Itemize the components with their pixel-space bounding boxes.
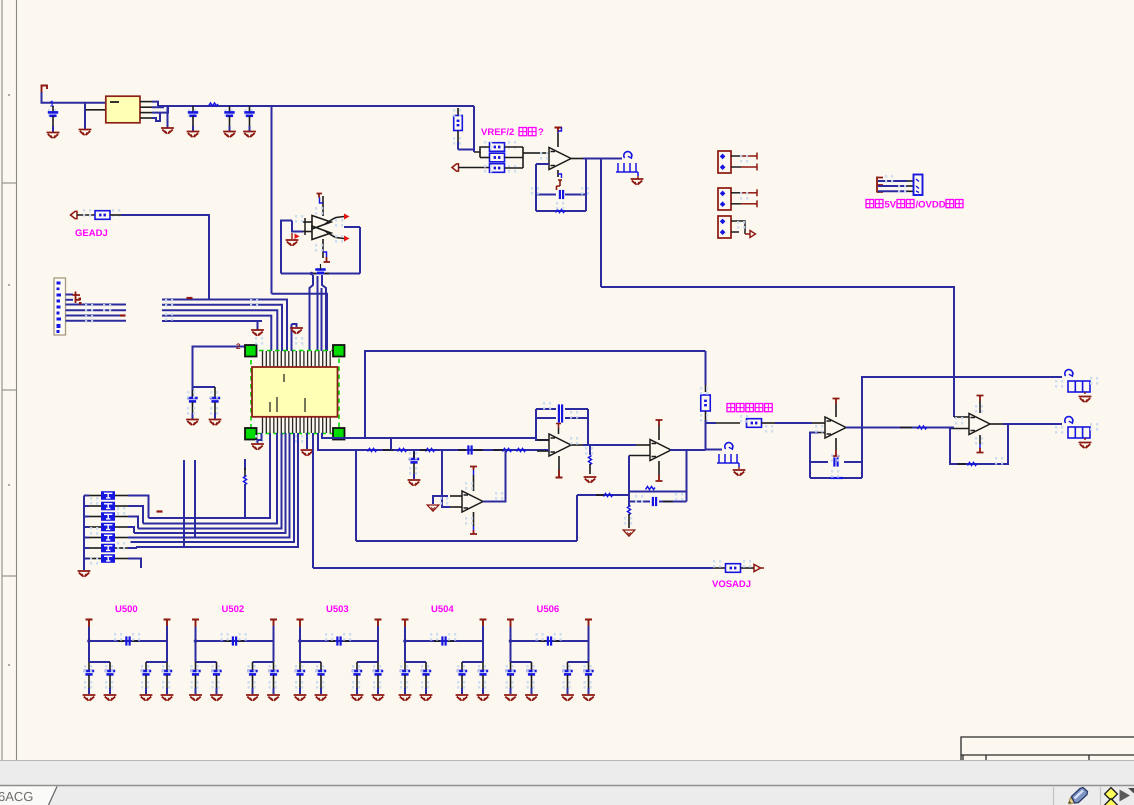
U7 feedback left vertical bbox=[810, 433, 818, 479]
selection dashed box around U3 bbox=[251, 351, 339, 434]
transistor loop bottom bbox=[281, 273, 360, 275]
U502 capacitor 3 bbox=[252, 662, 254, 670]
wire U2 output to no-erc bbox=[601, 158, 622, 160]
big loop bottom wire bbox=[356, 540, 577, 542]
U506 left vertical wire bbox=[510, 627, 512, 662]
pin from port to resistor row 3 bbox=[459, 167, 490, 169]
U500 capacitor 2 bbox=[109, 662, 111, 670]
net label on bus bbox=[209, 103, 219, 106]
U2 output wire bbox=[571, 158, 583, 160]
vertical y351 riser bbox=[365, 351, 706, 438]
U4 power stem down bbox=[473, 512, 475, 526]
U7 power stem down bbox=[835, 438, 837, 450]
capacitor C8 bbox=[214, 387, 216, 397]
U504 capacitor 2 bbox=[425, 662, 427, 670]
ground under J7 bbox=[738, 467, 740, 469]
shunt capacitor C10 bbox=[413, 450, 415, 458]
wire long vertical corner to bundle bbox=[272, 294, 328, 351]
U502 capacitor 2 bbox=[216, 662, 218, 670]
ground at J8 bbox=[1084, 392, 1086, 394]
pack resistor RN7 bbox=[84, 558, 89, 560]
ground under C8 bbox=[209, 420, 222, 426]
svg-text:U500: U500 bbox=[115, 604, 138, 615]
U506 link wire bbox=[511, 640, 589, 642]
connector comb J2 bbox=[616, 163, 638, 176]
big loop right riser bbox=[576, 495, 578, 541]
U5 feedback upper box bbox=[536, 408, 556, 410]
long feed wire corner down bbox=[601, 287, 954, 417]
U504 capacitor 3 bbox=[461, 662, 463, 670]
capacitor C2 bbox=[188, 109, 196, 117]
U502 left vertical wire bbox=[195, 627, 197, 662]
ground stub below bus bbox=[167, 106, 169, 128]
VOSADJ right pin bbox=[741, 567, 755, 569]
U500 capacitor 1 bbox=[88, 662, 90, 670]
U504 capacitor 4 bbox=[482, 662, 484, 670]
U502 ground 4 bbox=[267, 695, 280, 701]
U503 ground 2 bbox=[315, 695, 328, 701]
power port P1 top-left bbox=[42, 86, 48, 93]
node vertical to output junction bbox=[705, 420, 707, 450]
U503 capacitor 2 bbox=[320, 662, 322, 670]
U502 link wire bbox=[196, 640, 274, 642]
GEADJ pin left bbox=[77, 214, 95, 216]
U3 body bbox=[252, 367, 338, 417]
no-erc marker upper output bbox=[1065, 370, 1073, 376]
current output resistor wire bbox=[706, 422, 717, 424]
no-erc marker at U6 output bbox=[706, 449, 723, 451]
U500 left power pin bbox=[86, 620, 93, 628]
selection handle bottom-right bbox=[333, 428, 345, 440]
pack resistor RN5 bbox=[84, 537, 89, 539]
U500 ground 1 bbox=[83, 695, 96, 701]
U2 feedback bottom line bbox=[536, 210, 586, 212]
U506 left power pin bbox=[507, 620, 514, 628]
svg-text:U504: U504 bbox=[431, 604, 454, 615]
ground G inside transistor circuit bbox=[291, 233, 293, 239]
U503 series capacitor bbox=[329, 640, 335, 642]
ground under C3 bbox=[223, 132, 236, 138]
U500 ground 2 bbox=[104, 695, 117, 701]
bus line B4 bbox=[162, 316, 271, 351]
pencil icon bbox=[1069, 788, 1088, 805]
U500 right cap pair wire bbox=[146, 661, 167, 663]
corner arrow icon bbox=[1128, 788, 1134, 794]
wire 438 line up to U5 non-inv bbox=[536, 438, 549, 440]
svg-text:5V: 5V bbox=[885, 200, 897, 211]
U1 right pin hooks to bus bbox=[152, 102, 158, 106]
status bar background bbox=[0, 760, 1134, 805]
svg-text:U502: U502 bbox=[222, 604, 245, 615]
U506 ground 1 bbox=[504, 695, 517, 701]
wire to U1 left pins bbox=[57, 102, 85, 104]
U503 ground 3 bbox=[351, 695, 364, 701]
U5 power mark above bbox=[556, 424, 561, 429]
short vertical wire with net label bbox=[244, 459, 246, 470]
resistor pack left rail bbox=[83, 496, 85, 571]
ground under C1 bbox=[47, 133, 60, 139]
U7 feedback right vertical bbox=[861, 428, 863, 479]
U504 left power pin bbox=[402, 620, 409, 628]
U503 link wire bbox=[300, 640, 378, 642]
U503 right power pin bbox=[375, 620, 382, 627]
U503 left power pin bbox=[297, 620, 304, 628]
capacitor C1 bbox=[48, 109, 56, 117]
U5 output bbox=[571, 444, 583, 446]
wire from P1 bbox=[42, 92, 58, 103]
net labels right of C9 bbox=[503, 449, 513, 452]
status bar divider line bbox=[0, 785, 1134, 787]
U2 power stem up bbox=[557, 133, 559, 147]
U2 feedback cap line bbox=[536, 194, 556, 196]
U503 left cap pair wire bbox=[300, 661, 321, 663]
wire stub and grounds above IC bbox=[292, 324, 297, 327]
transistor loop left vertical bbox=[281, 221, 292, 249]
capacitor C7 bbox=[192, 390, 194, 397]
ground G3 bbox=[161, 128, 174, 134]
U2 feedback right vertical bbox=[585, 159, 587, 212]
pack resistor RN2 bbox=[84, 505, 89, 507]
U502 capacitor 1 bbox=[195, 662, 197, 670]
pack resistor RN6 bbox=[84, 547, 89, 549]
transistor Q1 pair crossed triangles bbox=[312, 216, 331, 230]
U6 feedback right vertical bbox=[686, 450, 688, 502]
U502 right cap pair wire bbox=[253, 661, 274, 663]
U506 ground 3 bbox=[561, 695, 574, 701]
pack minus label bbox=[157, 510, 163, 512]
bus line B2 bbox=[162, 305, 282, 351]
U4 power stem up bbox=[473, 475, 475, 491]
U500 left cap pair wire bbox=[89, 661, 110, 663]
bus line B1 bbox=[162, 300, 287, 352]
U6 feedback left vertical bbox=[628, 456, 630, 502]
U8 non-inv pin bbox=[954, 416, 969, 418]
sheet border left frame bbox=[2, 0, 17, 760]
U8 inv input from feedback bbox=[950, 428, 969, 430]
connector J3 bbox=[718, 151, 731, 173]
U4 output loop back to bus bbox=[483, 450, 506, 502]
svg-text:U503: U503 bbox=[326, 604, 349, 615]
label high current output bbox=[727, 404, 772, 412]
U4 non-inverting ground hook bbox=[433, 496, 448, 504]
connector J5 bbox=[718, 216, 731, 238]
U5 bottom power stem bbox=[558, 456, 560, 470]
U6 output wire bbox=[670, 449, 706, 451]
ground stub below IC mid bbox=[306, 433, 308, 449]
ground under pack rail bbox=[78, 571, 91, 577]
connector comb J7 bbox=[717, 454, 739, 467]
node joining bus drop to resistor ladder bbox=[473, 150, 475, 153]
U504 ground 4 bbox=[477, 695, 490, 701]
U3 top pins bbox=[263, 351, 331, 367]
resistor R6 GEADJ bbox=[95, 211, 110, 220]
U504 ground 2 bbox=[420, 695, 433, 701]
capacitor C4 bbox=[245, 109, 253, 117]
U506 right cap pair wire bbox=[568, 661, 589, 663]
pack resistor RN4 bbox=[84, 526, 89, 528]
ground under C2 bbox=[187, 132, 200, 138]
power bracket J6 left bbox=[877, 177, 883, 193]
port VOSADJ arrow bbox=[754, 564, 761, 571]
svg-text:U506: U506 bbox=[537, 604, 560, 615]
wire into U3 pin 1 from left bbox=[196, 346, 250, 348]
U1 right pins bbox=[140, 101, 152, 103]
pack resistor RN3 bbox=[84, 516, 89, 518]
op-amp U4 bbox=[462, 491, 483, 512]
svg-text:6ACG: 6ACG bbox=[0, 789, 33, 804]
diamond icon 2 partial bbox=[1105, 799, 1118, 805]
VOSADJ vertical from IC pin bbox=[312, 433, 314, 568]
svg-text:2: 2 bbox=[236, 342, 241, 351]
Q1 emitter stem down bbox=[322, 239, 324, 258]
U504 left cap pair wire bbox=[405, 661, 426, 663]
U504 capacitor 1 bbox=[404, 662, 406, 670]
series capacitor C9 on bus bbox=[458, 449, 466, 451]
U502 ground 2 bbox=[210, 695, 223, 701]
J6 pin stubs bbox=[907, 180, 914, 182]
resistor R4 bbox=[490, 153, 505, 162]
regulator U1 left pin hooks bbox=[85, 103, 106, 110]
sheet part body left bbox=[54, 278, 66, 335]
port arrow at J5 bbox=[745, 233, 750, 235]
U506 series capacitor bbox=[540, 640, 546, 642]
bus wire with net labels bbox=[356, 449, 548, 451]
status separator 1 bbox=[1053, 787, 1055, 805]
title block corner lines bbox=[961, 737, 1134, 760]
U502 right vertical wire bbox=[273, 626, 275, 662]
IC pin to bus corner bbox=[318, 433, 356, 450]
capacitor C5 in feedback bbox=[559, 190, 561, 199]
regulator U1 body bbox=[106, 96, 140, 123]
U500 series capacitor bbox=[118, 640, 124, 642]
label onboard 5V supply bbox=[866, 200, 883, 208]
U8 power stem down bbox=[979, 435, 981, 444]
vertical link bus to 438 line bbox=[390, 438, 392, 450]
left pins of R3 R4 bbox=[474, 147, 490, 152]
resistor R8 vertical bbox=[705, 385, 707, 392]
U500 capacitor 4 bbox=[166, 662, 168, 670]
maroon tick on pin wire bbox=[120, 314, 126, 316]
svg-text:VOSADJ: VOSADJ bbox=[712, 579, 751, 590]
wire to U6 feedback bbox=[577, 494, 629, 496]
sheet tab 6ACG bbox=[0, 787, 57, 805]
ground under C7 bbox=[186, 420, 199, 426]
U2 feedback left vertical bbox=[535, 164, 537, 211]
bracket joining ladder to op-amp input bbox=[522, 147, 524, 168]
U3 bottom pins bbox=[263, 417, 331, 433]
port GEADJ bbox=[71, 211, 78, 218]
staircase wires from IC bottom pins bbox=[149, 433, 271, 518]
connector J8 upper bbox=[1068, 381, 1090, 392]
status separator 2 bbox=[1100, 787, 1102, 805]
U506 capacitor 1 bbox=[510, 662, 512, 670]
power pin mark above C5 bbox=[557, 180, 563, 190]
U500 link wire bbox=[89, 640, 167, 642]
U503 capacitor 3 bbox=[356, 662, 358, 670]
bus line B5 to ground bbox=[162, 321, 262, 330]
svg-text:?: ? bbox=[538, 127, 544, 138]
U503 capacitor 1 bbox=[299, 662, 301, 670]
U502 left power pin bbox=[192, 620, 199, 628]
resistor R7 VOSADJ bbox=[726, 564, 741, 573]
main +5V bus wire bbox=[158, 105, 475, 107]
U502 ground 1 bbox=[189, 695, 202, 701]
ground under C4 bbox=[243, 132, 256, 138]
port VREF bbox=[452, 164, 459, 171]
U6 feedback lines bbox=[629, 491, 687, 493]
U506 right power pin bbox=[585, 620, 592, 627]
red pin arrows bbox=[295, 214, 350, 242]
U500 ground 4 bbox=[161, 695, 174, 701]
U500 ground 3 bbox=[140, 695, 153, 701]
no-erc marker on VREF node bbox=[624, 152, 632, 158]
power symbol on part pins bbox=[73, 292, 81, 304]
U503 right vertical wire bbox=[377, 626, 379, 662]
resistor R2 vertical on bus drop bbox=[457, 108, 459, 115]
U502 right power pin bbox=[270, 620, 277, 627]
438 line continuing to opamp bbox=[365, 437, 536, 439]
minus label on bus bbox=[187, 297, 193, 299]
Q1 collector curves bbox=[325, 217, 344, 225]
U502 capacitor 4 bbox=[273, 662, 275, 670]
U8 output bbox=[990, 423, 1003, 425]
GEADJ pin right bbox=[110, 214, 121, 216]
branch up to upper output connector bbox=[862, 377, 1062, 428]
U502 series capacitor bbox=[225, 640, 231, 642]
U503 right cap pair wire bbox=[357, 661, 378, 663]
U6 power stem up bbox=[658, 426, 660, 440]
play arrow icon bbox=[1120, 790, 1131, 802]
U500 capacitor 3 bbox=[145, 662, 147, 670]
U8 power stem up bbox=[979, 401, 981, 413]
op-amp U5 bbox=[549, 434, 571, 456]
U503 capacitor 4 bbox=[377, 662, 379, 670]
wire bus to U4 inverting input bbox=[442, 450, 450, 507]
svg-text:/OVDD: /OVDD bbox=[916, 200, 946, 211]
U2 bottom power stem bbox=[557, 170, 559, 177]
long vertical wire from bus down to pin bundle bbox=[271, 106, 273, 294]
power bar above U2 bbox=[555, 128, 563, 133]
big loop left vertical bbox=[355, 450, 357, 541]
U504 right cap pair wire bbox=[462, 661, 483, 663]
part pin wires bbox=[66, 294, 74, 296]
capacitor C6 on loop bottom bbox=[313, 273, 316, 275]
diamond icon 1 bbox=[1105, 788, 1118, 801]
U500 right vertical wire bbox=[166, 626, 168, 662]
wire U1 bracket to ground bbox=[84, 110, 86, 129]
U506 capacitor 2 bbox=[531, 662, 533, 670]
J6 wires bbox=[878, 180, 907, 182]
junction vertical down from U2 output bbox=[600, 159, 602, 288]
U6 power stem down bbox=[658, 461, 660, 475]
bus line B3 bbox=[162, 310, 277, 351]
connector block J6 bbox=[914, 175, 923, 196]
ground at J9 bbox=[1084, 438, 1086, 440]
ground bracket in transistor circuit bbox=[292, 221, 303, 232]
U500 right power pin bbox=[164, 620, 171, 627]
U6 ground branch bbox=[628, 502, 630, 507]
U503 left vertical wire bbox=[299, 627, 301, 662]
wire GEADJ to bundle bbox=[121, 215, 209, 300]
U504 right power pin bbox=[480, 620, 487, 627]
U5 inv input from bus bbox=[548, 450, 549, 451]
op-amp U8 bbox=[969, 414, 990, 435]
op-amp U6 bbox=[650, 440, 671, 461]
U504 link wire bbox=[405, 640, 483, 642]
ground on bus line B5 bbox=[251, 330, 264, 336]
U7 feedback bottom line bbox=[810, 477, 862, 479]
U504 ground 3 bbox=[456, 695, 469, 701]
U7 feedback capacitor line bbox=[810, 461, 828, 463]
U504 series capacitor bbox=[434, 640, 440, 642]
capacitor C3 bbox=[225, 109, 233, 117]
Q1 input pins bbox=[303, 221, 312, 223]
selection handle bottom-left bbox=[245, 428, 257, 440]
U503 ground 4 bbox=[372, 695, 385, 701]
U502 left cap pair wire bbox=[196, 661, 217, 663]
U506 capacitor 4 bbox=[588, 662, 590, 670]
connector J4 bbox=[718, 188, 731, 210]
U506 left cap pair wire bbox=[511, 661, 532, 663]
right pins of resistor ladder bbox=[505, 146, 524, 148]
transistor loop right vertical bbox=[359, 227, 361, 274]
ground under J2 bbox=[631, 179, 644, 185]
U500 left vertical wire bbox=[88, 627, 90, 662]
wire IC pin to 438 line bbox=[322, 433, 365, 438]
op-amp U7 bbox=[825, 417, 846, 438]
resistor R5 bbox=[490, 164, 505, 173]
U502 ground 3 bbox=[246, 695, 259, 701]
vertical taps from resistor pack area bbox=[183, 460, 185, 547]
VOSADJ wire long bbox=[313, 567, 713, 569]
decoupling wire left of IC bbox=[193, 347, 216, 388]
VOSADJ inline pin dashes bbox=[713, 567, 726, 569]
U504 ground 1 bbox=[399, 695, 412, 701]
connector J9 lower bbox=[1068, 427, 1090, 438]
pack resistor RN1 bbox=[84, 495, 89, 497]
ground under U1 bracket bbox=[79, 130, 92, 136]
U503 ground 1 bbox=[294, 695, 307, 701]
svg-text:GEADJ: GEADJ bbox=[75, 228, 108, 239]
U506 ground 4 bbox=[582, 695, 595, 701]
U7 output wire bbox=[846, 427, 862, 429]
signal ground at U4 input bbox=[427, 505, 439, 511]
U6 input pins bbox=[636, 444, 650, 446]
U5 output branch down to ground bbox=[589, 445, 591, 455]
ground under C10 bbox=[408, 480, 421, 486]
pack staircase to bus bbox=[128, 496, 149, 519]
ground hook below IC left bbox=[258, 433, 262, 443]
U506 ground 2 bbox=[525, 695, 538, 701]
op-amp U2 bbox=[549, 148, 571, 170]
resistor R3 bbox=[490, 143, 505, 152]
U506 right vertical wire bbox=[588, 626, 590, 662]
wire riser to current node bbox=[705, 351, 707, 385]
U7 power stem up bbox=[835, 404, 837, 417]
U504 left vertical wire bbox=[404, 627, 406, 662]
U8 feedback loop bbox=[950, 424, 1008, 464]
U2 input pins bbox=[537, 152, 549, 154]
Q1 power stem bbox=[322, 196, 324, 216]
wires from loop bottom to IC pins bbox=[310, 275, 314, 351]
U506 capacitor 3 bbox=[567, 662, 569, 670]
no-erc marker lower output bbox=[1065, 417, 1073, 423]
selection handle top-right bbox=[333, 345, 345, 357]
svg-text:VREF/2: VREF/2 bbox=[481, 127, 514, 138]
selection handle top-left bbox=[245, 345, 257, 357]
resistor R9 bbox=[747, 419, 762, 428]
wire bus corner down at x474 bbox=[458, 106, 474, 150]
